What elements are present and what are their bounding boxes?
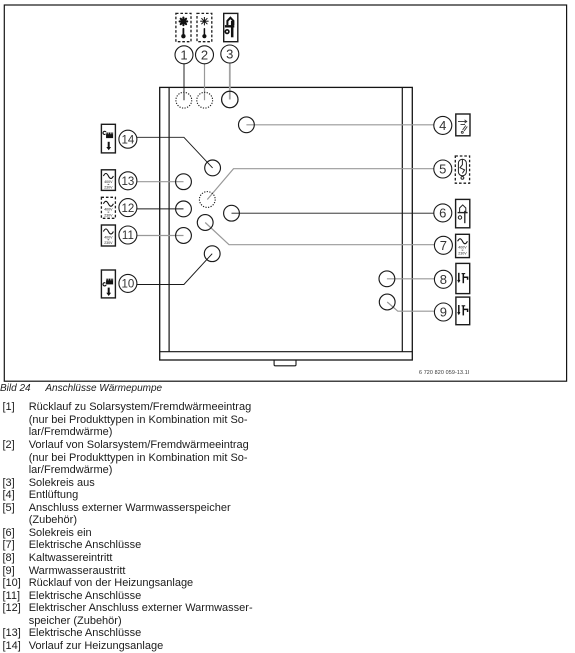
icon box 4: venting [456, 114, 470, 136]
leader 14 [137, 137, 213, 168]
icon box 2: solar temperature sensor 2 (dashed) [197, 13, 212, 41]
unit inner right panel line [401, 87, 403, 351]
callout 6 [434, 204, 452, 222]
port 14 [205, 160, 221, 176]
unit inner bottom line [160, 351, 413, 353]
leader 2 [204, 64, 206, 100]
icon box 10: heating return (radiator + arrow) [101, 270, 115, 298]
icon box 9: hot water outlet (tap) [456, 297, 470, 325]
port 1 (dashed) [176, 92, 192, 108]
port 13 [176, 174, 192, 190]
leader 8 [387, 278, 435, 280]
port 10 [204, 246, 220, 262]
svg-text:12: 12 [122, 203, 135, 215]
callout 7 [434, 236, 452, 254]
svg-text:8: 8 [440, 272, 447, 287]
svg-text:5: 5 [439, 162, 446, 177]
svg-text:9: 9 [440, 305, 447, 320]
leader 4 [246, 124, 433, 126]
svg-text:1: 1 [180, 47, 187, 62]
svg-text:230V: 230V [104, 241, 113, 245]
svg-text:2: 2 [201, 47, 208, 62]
icon box 3: brine circuit out [224, 13, 238, 41]
icon box 14: heating flow (radiator + arrow) [101, 124, 115, 153]
callout 1 [175, 46, 193, 64]
port 3 [222, 91, 238, 107]
leader 13 [137, 181, 184, 183]
svg-text:230V: 230V [104, 213, 113, 217]
callout 2 [196, 46, 214, 64]
leader 7 [205, 223, 434, 245]
icon box 12: electrical connection accessory (dashed) [101, 197, 115, 218]
svg-text:11: 11 [122, 230, 134, 242]
heat pump unit outer casing [160, 87, 413, 360]
leader 12 [137, 208, 184, 210]
callout 14 [119, 130, 137, 148]
port 9 [379, 294, 395, 310]
leader 11 [137, 235, 184, 237]
svg-text:6 720 820 059-13.1I: 6 720 820 059-13.1I [419, 370, 470, 376]
leader 1 [183, 64, 185, 100]
callout 3 [221, 45, 239, 63]
callout 10 [119, 274, 137, 292]
svg-text:4: 4 [439, 118, 446, 133]
svg-text:230V: 230V [458, 251, 467, 255]
svg-text:400V: 400V [458, 246, 467, 250]
svg-text:3: 3 [226, 47, 233, 62]
leader 10 [137, 254, 212, 285]
svg-text:10: 10 [122, 279, 135, 291]
svg-text:6: 6 [439, 205, 446, 220]
callout 8 [434, 270, 452, 288]
leader 9 [387, 302, 434, 311]
caption [0, 383, 31, 394]
port 8 [379, 271, 395, 287]
icon box 8: cold water inlet (tap) [456, 263, 470, 293]
port 5 (dashed) [199, 192, 215, 208]
callout 4 [434, 116, 452, 134]
port 11 [176, 228, 192, 244]
svg-text:400V: 400V [104, 235, 113, 239]
leader 5 [207, 169, 433, 200]
port 4 [239, 117, 255, 133]
callout 5 [434, 160, 452, 178]
unit foot tab [274, 360, 296, 366]
svg-text:230V: 230V [104, 186, 113, 190]
svg-text:7: 7 [440, 238, 447, 253]
leader 3 [229, 63, 231, 100]
icon box 6: brine circuit in [456, 199, 470, 227]
callout 13 [119, 172, 137, 190]
icon box 11: electrical connections [101, 225, 115, 246]
callout 12 [119, 199, 137, 217]
port 7 [197, 215, 213, 231]
svg-text:13: 13 [122, 176, 135, 188]
unit inner left panel line [168, 87, 170, 351]
icon box 1: solar temperature sensor (dashed) [176, 13, 191, 41]
figure frame [4, 5, 566, 381]
svg-text:400V: 400V [104, 208, 113, 212]
legend list [0, 400, 575, 402]
port 2 (dashed) [197, 92, 213, 108]
icon box 5: external DHW cylinder (dashed, accessory) [455, 156, 469, 183]
callout 9 [434, 303, 452, 321]
svg-text:14: 14 [122, 134, 135, 146]
port 6 [224, 205, 240, 221]
svg-text:400V: 400V [104, 180, 113, 184]
leader 6 [232, 212, 434, 214]
icon box 7: electrical connections [456, 234, 470, 257]
port 12 [176, 201, 192, 217]
callout 11 [119, 226, 137, 244]
icon box 13: electrical connections [101, 170, 115, 191]
